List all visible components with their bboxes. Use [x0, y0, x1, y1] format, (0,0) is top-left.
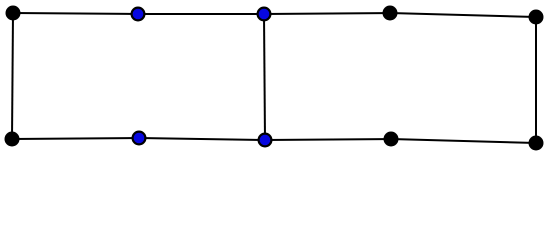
wire left edge A-F — [12, 13, 13, 139]
wire top edge B-C — [138, 13, 264, 15]
node A black top-left — [6, 6, 21, 21]
node I black bottom — [384, 132, 399, 147]
node F black bottom-left — [5, 132, 20, 147]
node J black bottom-right — [529, 136, 544, 151]
wire bottom edge F-G — [12, 138, 139, 139]
node C blue top — [258, 8, 271, 21]
wire top edge D-E — [390, 13, 536, 17]
wire bottom edge H-I — [265, 139, 391, 140]
wire top edge A-B — [13, 13, 138, 14]
node E black top-right — [529, 10, 544, 25]
wire middle edge C-H — [264, 14, 265, 140]
wire bottom edge I-J — [391, 139, 536, 143]
node D black top — [383, 6, 398, 21]
node G blue bottom — [133, 132, 146, 145]
wire top edge C-D — [264, 13, 390, 14]
node B blue top — [132, 8, 145, 21]
wire bottom edge G-H — [139, 138, 265, 140]
wire right edge E-J — [535, 17, 537, 143]
node H blue bottom — [259, 134, 272, 147]
